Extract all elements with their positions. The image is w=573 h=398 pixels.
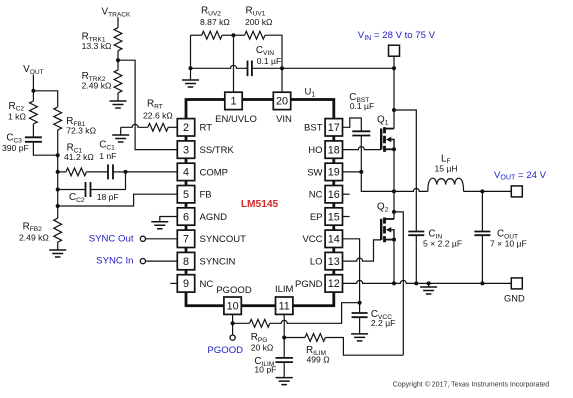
wire CILIM top lead — [283, 338, 285, 358]
wire RFB2 to ground — [57, 242, 59, 250]
svg-text:RUV2: RUV2 — [201, 5, 221, 17]
wire FB to RC1 — [58, 171, 66, 173]
wire VOUT to RC2 — [32, 91, 34, 101]
wire VOUT lead — [32, 75, 34, 91]
wire AGND to ground — [160, 217, 178, 222]
svg-text:RRT: RRT — [147, 99, 163, 111]
junction CC3 tap — [56, 153, 60, 157]
pin 5 box — [177, 186, 194, 203]
resistor RFB2 — [54, 218, 62, 242]
svg-text:VIN = 28 V to 75 V: VIN = 28 V to 75 V — [358, 30, 436, 42]
wire ILIM to RILIM — [284, 337, 305, 339]
svg-text:7 × 10 µF: 7 × 10 µF — [490, 239, 527, 249]
wire bypass rail right — [252, 67, 394, 69]
svg-text:SW: SW — [307, 167, 322, 178]
wire Q1 source to SW node — [393, 149, 395, 212]
svg-text:9: 9 — [183, 278, 189, 290]
wire CIN to PGND rail — [415, 235, 417, 283]
svg-text:6: 6 — [183, 211, 189, 223]
wire CC3 to FB node — [33, 142, 57, 155]
svg-text:NC: NC — [200, 279, 214, 290]
capacitor CVCC — [352, 313, 368, 317]
wire VIN vertical — [393, 56, 395, 128]
wire RC2 to CC3 — [32, 124, 34, 137]
ground power rail — [420, 287, 437, 294]
junction SW main — [392, 189, 396, 193]
junction CC2 tap — [56, 188, 60, 192]
wire EN divider down to pin 1 — [233, 35, 235, 92]
capacitor COUT — [474, 232, 490, 236]
svg-text:CC1: CC1 — [99, 140, 115, 152]
svg-text:41.2 kΩ: 41.2 kΩ — [64, 152, 94, 162]
svg-text:19: 19 — [328, 167, 340, 179]
transistor Q1 body tail — [391, 140, 394, 150]
resistor RFB1 — [54, 107, 62, 130]
wire VOUT to RFB1 — [33, 91, 57, 107]
junction rail ground — [189, 66, 193, 70]
wire RC1 to CC1 — [86, 171, 108, 173]
svg-text:LM5145: LM5145 — [241, 199, 279, 210]
capacitor CC3 — [25, 137, 42, 142]
svg-text:VCC: VCC — [302, 234, 322, 245]
wire VIN to CIN — [394, 110, 416, 232]
wire inductor to VOUT — [464, 190, 512, 192]
wire RPG to VCC with hop over ILIM — [270, 303, 360, 324]
wire FB to CC2 — [58, 189, 86, 191]
svg-text:LO: LO — [310, 257, 323, 268]
wire RTRK2 to ground — [117, 93, 119, 101]
op-amp U1 LM5145 controller IC body — [186, 100, 334, 306]
ground input bypass — [182, 80, 199, 87]
svg-text:1: 1 — [230, 96, 236, 108]
svg-text:0.1 µF: 0.1 µF — [350, 101, 375, 111]
svg-text:Q1: Q1 — [377, 115, 389, 127]
wire VCC pin down — [343, 239, 360, 303]
wire bypass rail left with hop over EN — [191, 65, 248, 68]
svg-text:FB: FB — [200, 190, 212, 201]
svg-text:16: 16 — [328, 189, 340, 201]
transistor Q2 body arrow — [386, 227, 391, 232]
svg-text:U1: U1 — [305, 87, 316, 99]
svg-text:12: 12 — [328, 278, 340, 290]
junction PGOOD RPG — [231, 321, 235, 325]
ground CILIM — [276, 378, 293, 385]
capacitor CC1 — [108, 164, 113, 179]
svg-text:VOUT: VOUT — [23, 64, 44, 76]
svg-text:EP: EP — [310, 212, 323, 223]
svg-text:4: 4 — [183, 167, 189, 179]
svg-text:3: 3 — [183, 144, 189, 156]
junction VIN rail tap — [392, 66, 396, 70]
svg-text:15 µH: 15 µH — [435, 164, 458, 174]
terminal GND square — [511, 278, 522, 289]
svg-text:72.3 kΩ: 72.3 kΩ — [66, 126, 96, 136]
wire CC1 to COMP junction — [113, 171, 126, 173]
svg-text:BST: BST — [304, 123, 323, 134]
svg-text:499 Ω: 499 Ω — [307, 355, 331, 365]
pin 6 box — [177, 208, 194, 225]
wire COUT to PGND rail — [481, 235, 483, 283]
junction rail ground tap — [427, 281, 431, 285]
svg-text:1 nF: 1 nF — [99, 151, 116, 161]
svg-text:EN/UVLO: EN/UVLO — [215, 114, 257, 125]
wire RILIM to SW sense — [325, 338, 403, 356]
wire SW to inductor with hop over CIN — [394, 188, 428, 191]
pin 10 box — [224, 297, 241, 314]
svg-text:VOUT = 24 V: VOUT = 24 V — [494, 170, 547, 182]
resistor RC1 — [66, 168, 86, 176]
junction VIN pin and bypass rail — [280, 66, 284, 70]
wire FB node vertical — [57, 130, 59, 218]
wire SYNC In to pin 8 — [146, 260, 178, 262]
wire COMP to pin 4 — [126, 171, 178, 173]
wire NC stub pin 9 — [170, 282, 177, 284]
terminal PGOOD circle — [230, 335, 235, 340]
wire RUV1 left lead — [234, 34, 245, 36]
svg-text:8.87 kΩ: 8.87 kΩ — [200, 17, 230, 27]
svg-text:SS/TRK: SS/TRK — [200, 145, 235, 156]
wire SW jog down — [361, 172, 394, 192]
svg-text:20: 20 — [276, 96, 288, 108]
pin 16 box — [325, 186, 342, 203]
transistor Q2 source lead — [385, 239, 395, 241]
wire SW to RILIM sense — [394, 212, 403, 355]
pin 2 box — [177, 119, 194, 136]
svg-text:AGND: AGND — [200, 212, 228, 223]
svg-text:RT: RT — [200, 123, 213, 134]
pin 3 box — [177, 141, 194, 158]
svg-text:7: 7 — [183, 234, 189, 246]
svg-text:10 pF: 10 pF — [254, 365, 276, 375]
junction COMP node — [124, 170, 128, 174]
junction SW CBST — [359, 170, 363, 174]
svg-text:22.6 kΩ: 22.6 kΩ — [143, 111, 173, 121]
svg-text:11: 11 — [279, 301, 290, 313]
svg-text:PGOOD: PGOOD — [207, 345, 243, 356]
wire CVCC to ground — [359, 317, 361, 334]
pin 9 box — [177, 275, 194, 292]
junction track divider — [116, 58, 120, 62]
svg-text:1 kΩ: 1 kΩ — [8, 112, 26, 122]
svg-text:18: 18 — [328, 144, 340, 156]
transistor Q2 body tail — [391, 230, 394, 240]
wire CBST to SW — [360, 136, 362, 172]
inductor LF — [428, 178, 464, 191]
transistor Q1 source lead — [385, 148, 395, 150]
resistor RUV2 — [202, 31, 222, 39]
terminal SYNC Out circle — [140, 236, 145, 241]
svg-text:8: 8 — [183, 256, 189, 268]
svg-text:2.2 µF: 2.2 µF — [371, 318, 396, 328]
resistor RC2 — [30, 101, 38, 124]
pin 17 box — [325, 119, 342, 136]
wire Q2 drain vertical — [393, 212, 395, 219]
svg-text:20 kΩ: 20 kΩ — [251, 342, 274, 352]
pin 20 box — [273, 92, 290, 109]
wire PGND rail with hops — [343, 280, 512, 283]
wire LO to Q2 gate with hop over VCC — [343, 240, 382, 261]
wire RUV2 left lead — [191, 34, 202, 36]
wire COUT branch — [481, 191, 483, 231]
capacitor CC2 — [86, 182, 91, 197]
wire EP stub pin 15 — [343, 216, 350, 218]
wire RUV1 to VIN pin line — [265, 35, 282, 92]
transistor Q2 drain lead — [385, 218, 395, 220]
wire Q2 source to PGND rail — [393, 240, 395, 284]
terminal VIN square — [389, 45, 400, 56]
svg-text:CC2: CC2 — [69, 192, 85, 204]
svg-text:SYNC Out: SYNC Out — [89, 233, 134, 244]
wire NC stub pin 16 — [343, 193, 350, 195]
pin 14 box — [325, 230, 342, 247]
wire RUV2 down to rail — [190, 35, 192, 68]
wire CILIM to ground — [283, 362, 285, 378]
svg-text:RFB2: RFB2 — [23, 221, 43, 233]
svg-text:17: 17 — [328, 122, 340, 134]
svg-text:200 kΩ: 200 kΩ — [245, 17, 273, 27]
junction CIN tap — [392, 108, 396, 112]
svg-text:13: 13 — [328, 256, 340, 268]
wire RUV2 to junction — [222, 34, 233, 36]
junction EN divider — [232, 33, 236, 37]
resistor RUV1 — [245, 31, 265, 39]
svg-text:ILIM: ILIM — [275, 284, 294, 295]
resistor RRT — [148, 123, 168, 131]
pin 18 box — [325, 141, 342, 158]
svg-text:SYNCIN: SYNCIN — [200, 257, 236, 268]
wire RRT to pin 2 — [168, 126, 177, 128]
resistor RILIM — [305, 334, 325, 342]
svg-text:VIN: VIN — [276, 114, 292, 125]
pin 11 box — [276, 297, 293, 314]
junction COUT rail — [480, 281, 484, 285]
svg-text:14: 14 — [328, 234, 340, 246]
wire HO to Q1 gate with hop — [343, 147, 382, 150]
wire SYNC Out to pin 7 — [146, 238, 178, 240]
svg-text:2: 2 — [183, 122, 189, 134]
capacitor CIN — [408, 232, 424, 236]
transistor Q1 drain lead — [385, 128, 395, 130]
junction VCC CVCC — [358, 301, 362, 305]
wire CVCC top lead — [359, 303, 361, 313]
junction VOUT COUT tap — [480, 189, 484, 193]
svg-text:18 pF: 18 pF — [97, 192, 119, 202]
transistor Q1 body arrow — [386, 137, 391, 142]
svg-text:13.3 kΩ: 13.3 kΩ — [82, 41, 112, 51]
wire junction to RTRK2 — [117, 60, 119, 70]
svg-text:Copyright © 2017, Texas Instru: Copyright © 2017, Texas Instruments Inco… — [393, 381, 549, 389]
svg-text:5 × 2.2 µF: 5 × 2.2 µF — [423, 239, 462, 249]
wire CC2 to COMP branch — [91, 189, 126, 191]
pin 13 box — [325, 252, 342, 269]
wire RT ground stem — [120, 127, 122, 135]
svg-text:PGND: PGND — [295, 279, 323, 290]
terminal SYNC In circle — [140, 259, 145, 264]
wire CC2 branch vertical — [125, 172, 127, 190]
junction Q2 source body — [392, 238, 396, 242]
transistor Q2 channel bars — [383, 217, 386, 242]
capacitor CBST — [352, 131, 370, 135]
svg-text:15: 15 — [328, 211, 340, 223]
junction Q2 source rail — [392, 281, 396, 285]
wire VTRACK lead — [117, 17, 119, 28]
svg-text:HO: HO — [308, 145, 322, 156]
ground below RTRK2 — [110, 101, 127, 108]
capacitor CILIM — [275, 358, 293, 362]
svg-text:0.1 µF: 0.1 µF — [257, 56, 282, 66]
junction Q1 source body — [392, 147, 396, 151]
capacitor CVIN — [248, 61, 252, 77]
junction VOUT node — [31, 89, 35, 93]
svg-text:SYNC In: SYNC In — [96, 256, 133, 267]
wire track tap to SS/TRK pin 3 — [118, 60, 177, 149]
ground for RRT — [112, 135, 129, 142]
wire rail ground stem — [190, 68, 192, 80]
svg-text:COMP: COMP — [200, 167, 229, 178]
junction SW RILIM tap — [392, 210, 396, 214]
svg-text:5: 5 — [183, 189, 189, 201]
pin 7 box — [177, 230, 194, 247]
svg-text:10: 10 — [227, 301, 239, 313]
wire SW pin to CBST junction — [343, 171, 362, 173]
junction FB tap — [56, 204, 60, 208]
junction ILIM node — [282, 336, 286, 340]
svg-text:2.49 kΩ: 2.49 kΩ — [19, 233, 49, 243]
svg-text:PGOOD: PGOOD — [216, 285, 252, 296]
ground below RFB2 — [49, 250, 66, 257]
ground CVCC — [351, 334, 368, 341]
svg-text:SYNCOUT: SYNCOUT — [200, 234, 247, 245]
svg-text:RUV1: RUV1 — [246, 5, 266, 17]
wire RTRK1 to junction — [117, 51, 119, 61]
resistor RPG — [250, 319, 270, 327]
wire pin 11 down — [283, 314, 285, 337]
pin 8 box — [177, 252, 194, 269]
wire RT ground lead with hop — [121, 124, 148, 127]
wire pin 10 down — [232, 314, 234, 335]
transistor Q1 channel bars — [383, 127, 386, 152]
junction RC1 tap — [56, 170, 60, 174]
resistor RTRK2 — [114, 70, 122, 93]
svg-text:2.49 kΩ: 2.49 kΩ — [82, 80, 112, 90]
pin 12 box — [325, 275, 342, 292]
transistor Q2 gate bar — [380, 219, 382, 240]
junction CIN rail — [414, 281, 418, 285]
transistor Q1 gate bar — [380, 129, 382, 150]
svg-text:Q2: Q2 — [377, 202, 389, 214]
wire PGOOD to RPG — [233, 322, 250, 324]
resistor RTRK1 — [114, 28, 122, 51]
pin 15 box — [325, 208, 342, 225]
svg-text:VTRACK: VTRACK — [102, 7, 132, 19]
svg-text:GND: GND — [504, 294, 525, 304]
svg-text:390 pF: 390 pF — [2, 143, 29, 153]
terminal VOUT square — [511, 186, 522, 197]
svg-text:NC: NC — [309, 190, 323, 201]
pin 1 box — [225, 92, 242, 109]
wire BST pin to CBST — [343, 118, 362, 131]
ground AGND — [151, 222, 168, 229]
wire FB node to pin 5 — [58, 194, 178, 206]
wire rail ground stem — [428, 283, 430, 287]
pin 19 box — [325, 163, 342, 180]
pin 4 box — [177, 163, 194, 180]
